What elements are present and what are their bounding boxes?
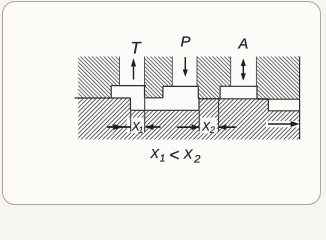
white halo X2 label xyxy=(200,118,217,134)
svg-text:A: A xyxy=(238,37,249,53)
svg-text:1: 1 xyxy=(138,124,143,135)
slider left surface line xyxy=(75,97,131,99)
dimension X2 extension lines xyxy=(199,99,218,132)
stub2 left wall xyxy=(144,86,146,98)
svg-text:X: X xyxy=(150,147,160,161)
dimension X1 left arrow xyxy=(107,124,131,129)
slider step down at groove left xyxy=(130,98,132,110)
dimension X2 right arrow xyxy=(219,125,237,130)
stub3 left wall xyxy=(197,86,199,98)
plate block B2 (land between T and P) xyxy=(145,57,173,98)
plate block B1 (left land with stub) xyxy=(78,57,119,98)
A channel wall lines xyxy=(230,57,232,87)
stub2 bottom line xyxy=(145,97,164,99)
T cavity left wall (stub1 right edge) xyxy=(110,86,112,98)
white halo X1 label xyxy=(127,118,144,134)
stub2 right wall xyxy=(162,86,164,97)
T cavity ceiling line xyxy=(111,85,146,87)
plate block B4 (right land) xyxy=(256,57,299,100)
svg-text:1: 1 xyxy=(160,154,165,165)
svg-text:<: < xyxy=(169,146,179,165)
dimension X2 left arrow xyxy=(177,125,199,130)
P channel wall lines xyxy=(171,57,173,87)
figure right edge line xyxy=(299,57,301,140)
groove floor line xyxy=(131,109,200,111)
caption X1 < X2 xyxy=(150,146,201,166)
right slot floor line xyxy=(268,110,299,112)
stub3 bottom line xyxy=(198,98,219,100)
A cavity box outline xyxy=(220,86,257,99)
svg-text:P: P xyxy=(181,34,191,51)
arrow A (double headed) xyxy=(241,59,246,80)
slider right surface line xyxy=(199,98,268,100)
dimension X1 extension lines xyxy=(131,98,145,133)
arrow T (up) xyxy=(131,59,136,80)
stub4 bottom line / right slot ceiling xyxy=(257,98,300,100)
slider step up at groove right xyxy=(198,99,200,111)
svg-text:2: 2 xyxy=(193,154,200,166)
plate block B3 (land between P and A) xyxy=(197,57,231,99)
svg-text:X: X xyxy=(183,147,194,162)
arrow P (down) xyxy=(183,57,188,76)
T channel wall lines xyxy=(120,57,257,87)
svg-text:T: T xyxy=(131,39,143,57)
slider step at right slot xyxy=(267,99,269,111)
white halo band for motion arrow xyxy=(266,121,299,127)
P cavity ceiling line xyxy=(163,85,198,87)
svg-text:2: 2 xyxy=(209,124,216,135)
dimension X1 right arrow xyxy=(146,124,161,129)
motion arrow (spool displacement, right) xyxy=(268,121,299,127)
slider (bottom sliding member) xyxy=(78,98,299,140)
